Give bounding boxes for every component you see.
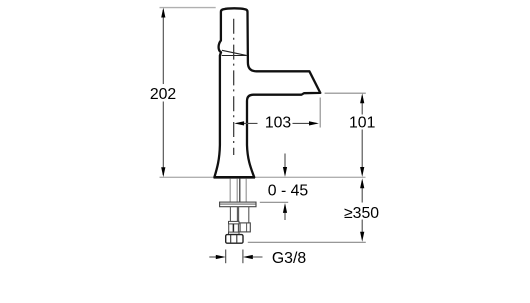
svg-text:101: 101 [349,115,376,132]
svg-text:103: 103 [265,115,292,132]
svg-text:202: 202 [150,86,176,103]
svg-text:G3/8: G3/8 [272,250,306,267]
svg-text:≥350: ≥350 [344,205,379,222]
svg-text:0 - 45: 0 - 45 [268,183,309,200]
